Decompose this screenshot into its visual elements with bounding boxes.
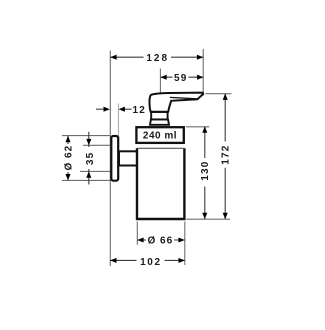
extension line O62 top [62, 135, 111, 137]
extension line 59 left (pump top) [159, 69, 161, 93]
svg-text:102: 102 [140, 257, 162, 268]
pump collar [151, 112, 167, 119]
dimension 130 arrows [202, 127, 207, 133]
dimension 12 line right lead [124, 108, 131, 110]
glass bottle body [137, 148, 184, 219]
dimension O62 line [67, 136, 69, 144]
extension line bottle bottom left (O66) [136, 222, 138, 245]
extension line right of lever (128/59 right reference) [202, 49, 204, 96]
dimension 59 line [160, 76, 203, 78]
extension line plate front (12 dim) [117, 104, 119, 137]
pump body and lever [149, 93, 203, 112]
svg-text:130: 130 [200, 160, 211, 180]
extension line band top to 130 [186, 126, 209, 128]
dimension 35 line (overshoot) [88, 132, 90, 147]
dimension 128 arrows [110, 55, 116, 60]
dimension 12 arrows (outside) [104, 107, 110, 112]
dimension 172 arrows [223, 94, 228, 100]
svg-text:59: 59 [174, 73, 188, 84]
lever inner line [170, 97, 197, 98]
glass bottle rim line [137, 147, 184, 149]
extension line 35 bottom [80, 170, 111, 172]
dimension O66 arrows [137, 237, 143, 242]
svg-text:240 ml: 240 ml [143, 131, 177, 142]
extension line lever top to 172 [206, 93, 232, 95]
svg-text:12: 12 [133, 105, 147, 116]
dimension 35 arrows (outside) [86, 139, 91, 145]
holder arm [119, 151, 137, 165]
dimension O66 line [137, 239, 184, 241]
extension line bottle right (O66/102) [184, 222, 186, 266]
svg-text:Ø 66: Ø 66 [147, 236, 173, 247]
svg-text:172: 172 [221, 144, 232, 164]
svg-text:35: 35 [85, 152, 96, 166]
extension line O62 bottom [62, 179, 111, 181]
extension line bottle bottom right [187, 218, 231, 220]
wall extension line (left reference) [109, 51, 111, 267]
dimension O62 arrows [65, 136, 70, 142]
dimension 128 line [110, 56, 203, 58]
dimension 102 line [110, 259, 185, 261]
pump flare (base) [150, 119, 169, 124]
wall mounting plate [111, 136, 118, 181]
dimension 102 arrows [110, 258, 116, 263]
dimension 130 line [204, 127, 206, 158]
dimension 12 line left lead [96, 108, 103, 110]
dimension 172 line [224, 94, 226, 142]
holder band (240 ml) [136, 127, 183, 143]
svg-text:128: 128 [146, 53, 169, 64]
svg-text:Ø 62: Ø 62 [64, 145, 75, 171]
extension line 35 top [83, 144, 111, 146]
dimension 59 arrows [160, 75, 166, 80]
